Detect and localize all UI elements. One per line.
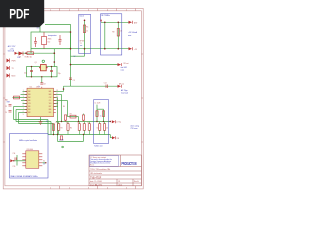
svg-text:1c: 1c [39,86,41,88]
svg-text:C5: C5 [97,128,99,130]
svg-text:10k: 10k [56,122,59,124]
svg-text:R4: R4 [70,128,72,130]
svg-text:1n: 1n [77,122,79,124]
svg-text:15: 15 [56,99,58,101]
svg-text:R7: R7 [70,114,72,116]
svg-text:RB1: RB1 [28,109,31,111]
svg-text:T-filter unit: T-filter unit [94,144,103,147]
svg-text:RB5: RB5 [49,112,52,114]
svg-text:Rev 2: Rev 2 [90,165,94,167]
svg-text:22p: 22p [24,72,27,74]
svg-text:1: 1 [50,10,51,12]
svg-text:75R coax: 75R coax [130,128,137,130]
svg-text:C6: C6 [106,128,108,130]
svg-text:coax: coax [121,70,125,72]
svg-text:L1 10uH: L1 10uH [95,102,101,104]
svg-text:RF out: RF out [124,62,130,65]
svg-text:IC1: IC1 [30,87,33,89]
svg-text:R8: R8 [112,31,114,33]
svg-text:RB2: RB2 [28,112,31,114]
svg-text:BF199: BF199 [80,41,85,43]
svg-text:3: 3 [88,10,89,12]
svg-text:max load: max load [121,93,128,95]
svg-text:C15: C15 [13,166,16,168]
svg-text:VSS: VSS [28,103,31,105]
svg-text:R3: R3 [61,128,63,130]
svg-text:2: 2 [69,187,70,189]
svg-text:VDD: VDD [49,103,52,105]
svg-text:AF 1Vpp: AF 1Vpp [121,89,128,92]
svg-text:temperatur: temperatur [48,34,57,37]
svg-text:CLK: CLK [49,100,52,102]
svg-text:+5V 100mA: +5V 100mA [128,31,138,34]
svg-text:1/1: 1/1 [118,181,120,183]
svg-text:C12: C12 [104,82,107,84]
svg-text:3: 3 [88,187,89,189]
svg-text:SMALL SIGNAL SCHEMATIC 4MHz: SMALL SIGNAL SCHEMATIC 4MHz [10,175,37,178]
svg-text:4: 4 [107,187,108,189]
svg-text:RF 75MHz: RF 75MHz [101,15,110,17]
svg-text:4MHz crystal oscillator: 4MHz crystal oscillator [19,139,37,142]
svg-text:14: 14 [56,102,58,104]
svg-text:C9: C9 [73,80,75,82]
svg-text:1n: 1n [87,122,89,124]
svg-text:into 50R: into 50R [121,66,128,69]
svg-text:TVB 4TSF: TVB 4TSF [90,176,102,179]
svg-text:IC3 4060: IC3 4060 [27,149,34,151]
svg-text:max: max [128,35,131,37]
svg-text:5V1: 5V1 [37,28,40,30]
svg-text:500 mA: 500 mA [8,50,15,53]
svg-text:13: 13 [56,105,58,107]
svg-text:1k: 1k [120,31,122,33]
svg-text:4: 4 [107,10,108,12]
svg-text:RB0: RB0 [28,106,31,108]
svg-text:10k: 10k [66,122,69,124]
svg-text:T1: T1 [80,43,82,45]
svg-text:2: 2 [69,10,70,12]
svg-text:date: 12.4.2008: date: 12.4.2008 [90,180,102,183]
svg-text:C14: C14 [13,153,16,155]
svg-text:RB7: RB7 [49,106,52,108]
svg-text:Q1: Q1 [35,62,37,64]
svg-text:sheet: sheet [118,183,123,186]
svg-text:RST: RST [7,101,10,103]
svg-text:PDF: PDF [9,6,30,22]
svg-text:1k: 1k [86,31,88,33]
svg-text:C4: C4 [5,112,7,114]
svg-text:osc: osc [80,45,83,47]
svg-text:R5: R5 [86,27,88,29]
svg-text:PRODUCTION: PRODUCTION [122,161,137,166]
svg-text:1: 1 [50,187,51,189]
svg-text:5: 5 [126,187,127,189]
svg-text:X2: X2 [43,161,45,163]
svg-text:ANT: ANT [134,22,137,25]
svg-text:Clock: Clock [79,16,84,18]
svg-text:7805: 7805 [48,39,52,41]
svg-text:C8: C8 [44,84,46,86]
svg-text:17: 17 [56,93,58,95]
svg-text:5: 5 [126,10,127,12]
svg-text:IC2: IC2 [48,42,51,44]
svg-text:OSC: OSC [49,97,52,99]
svg-text:C3: C3 [5,106,7,108]
svg-text:AF out: AF out [119,82,125,85]
svg-text:R6: R6 [63,106,65,108]
svg-text:1u: 1u [100,116,102,118]
svg-text:18: 18 [56,90,58,92]
svg-text:JRD elektronika: JRD elektronika [90,172,102,175]
svg-text:RB6: RB6 [49,109,52,111]
svg-text:TITLE: TVB modulator PAL: TITLE: TVB modulator PAL [90,168,110,171]
svg-text:22p: 22p [58,73,61,75]
svg-text:16: 16 [56,96,58,98]
